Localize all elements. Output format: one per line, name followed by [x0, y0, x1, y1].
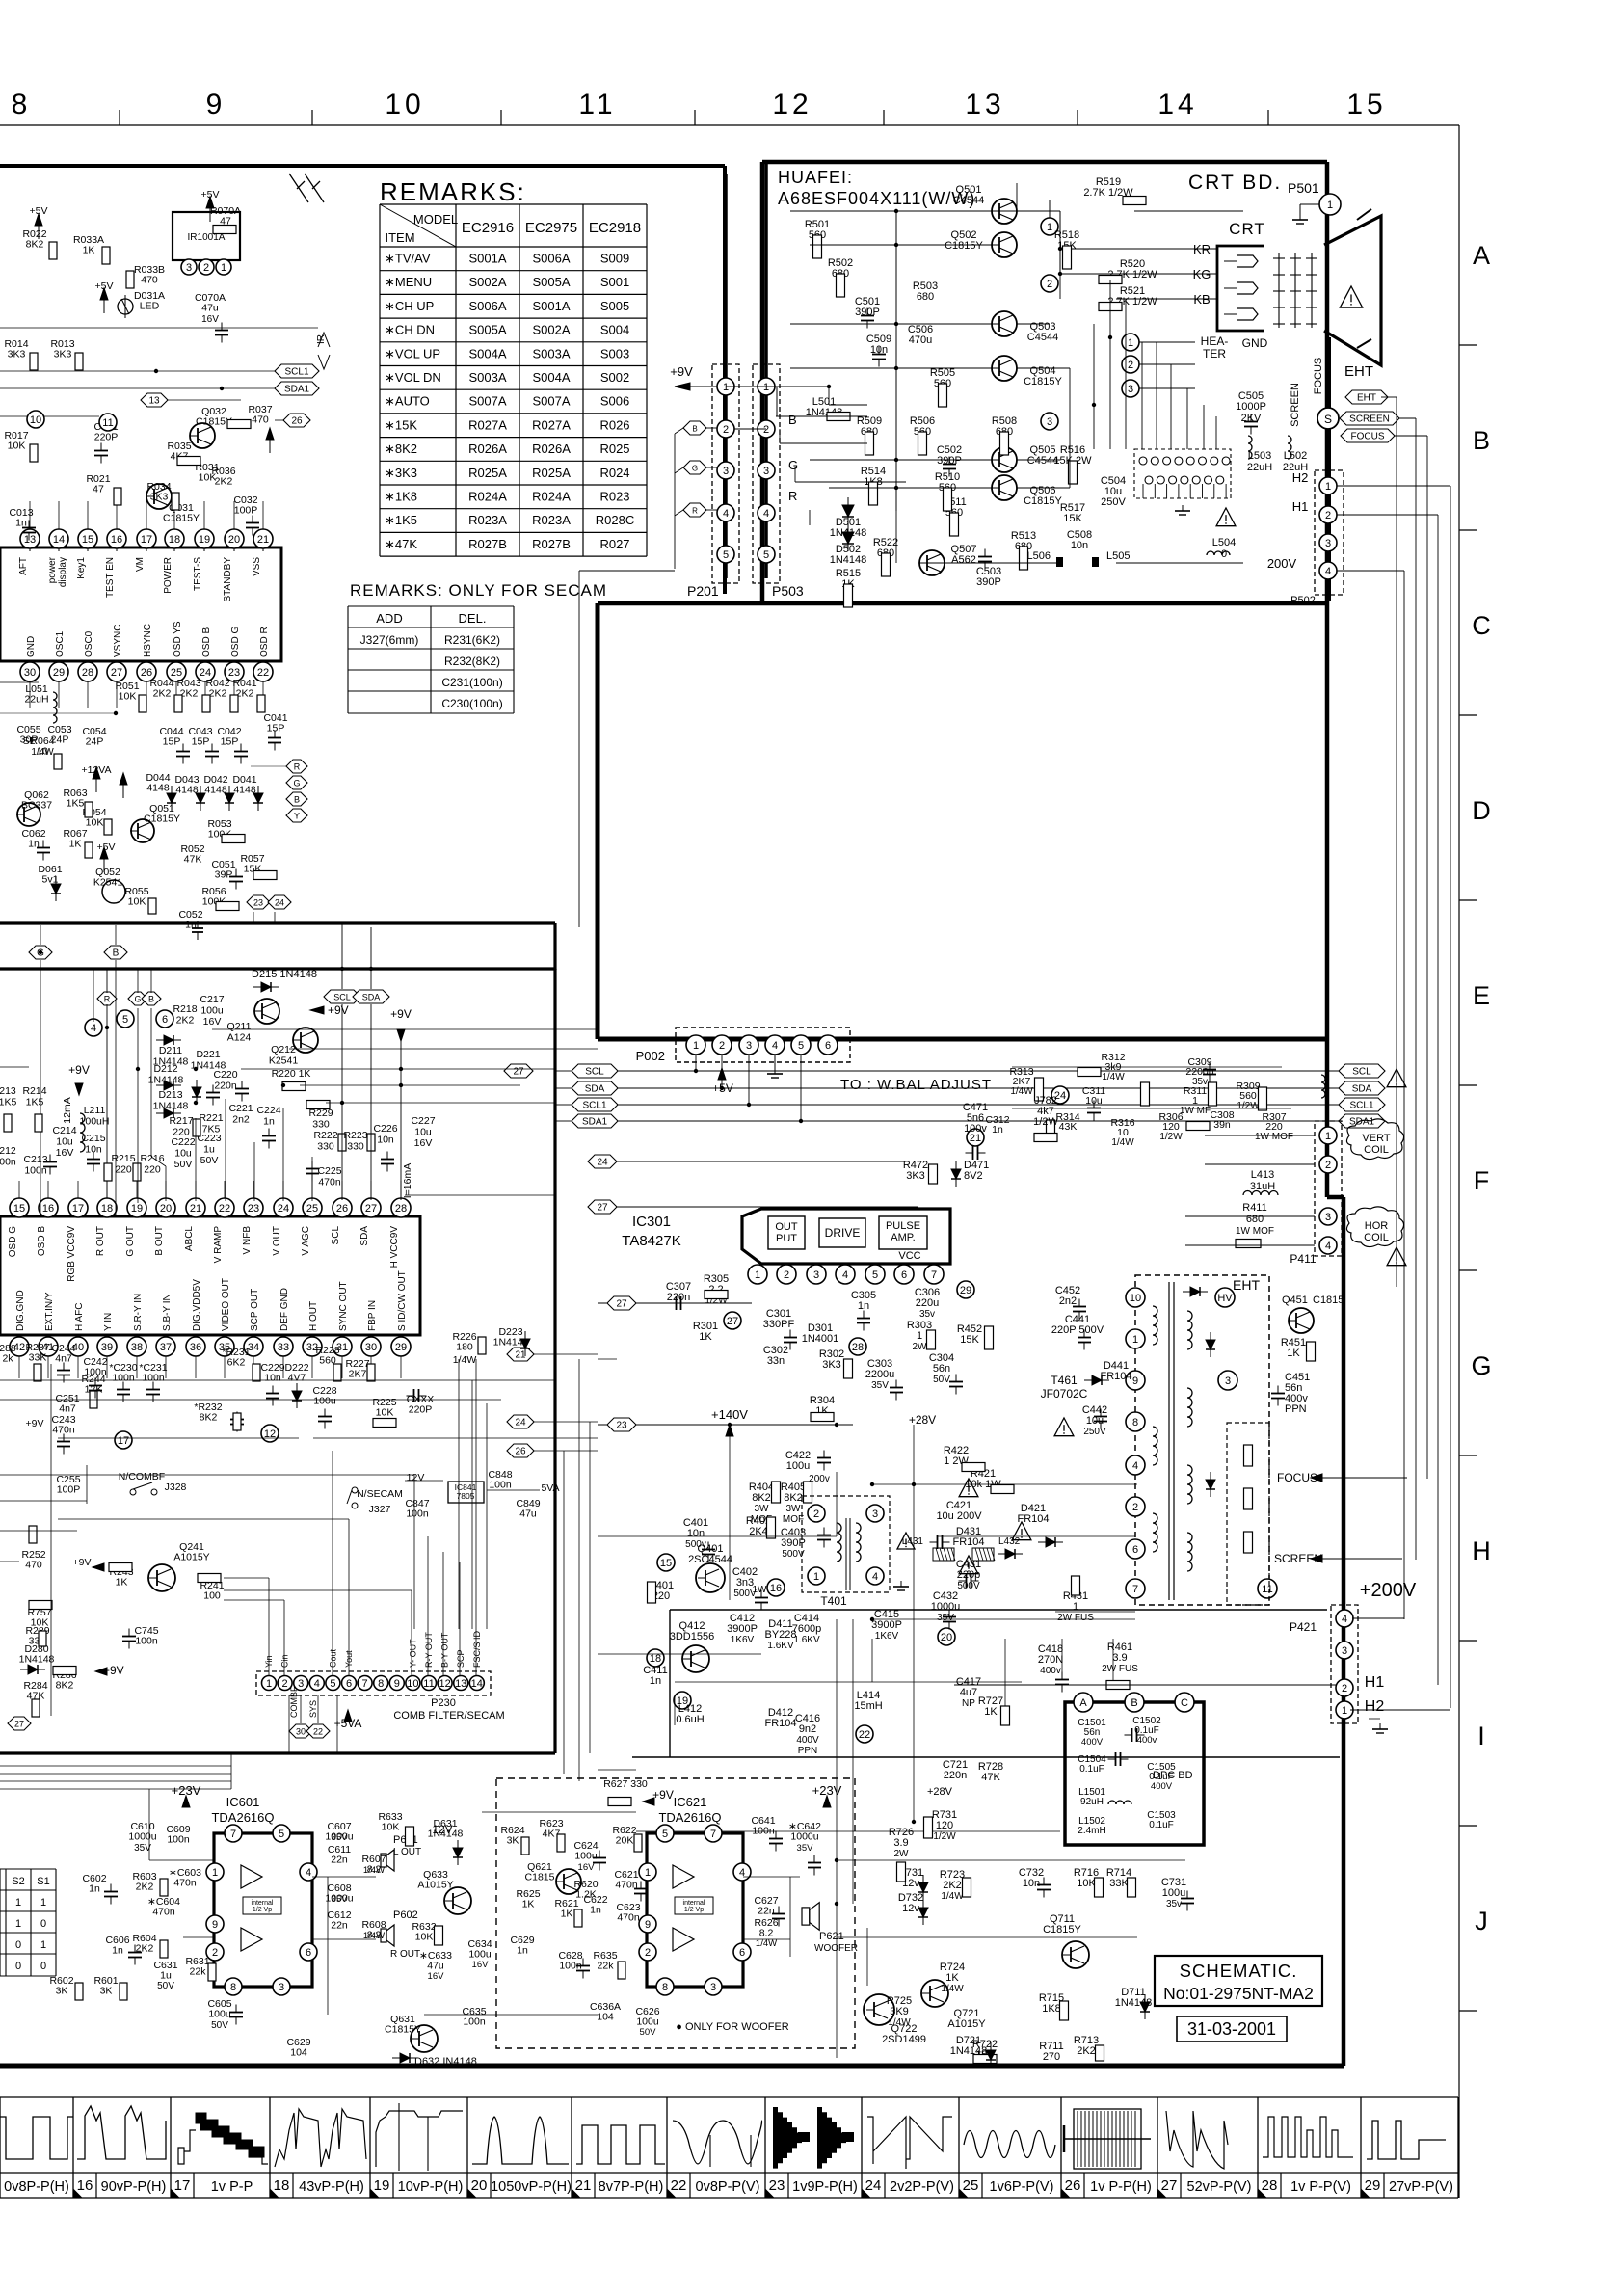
svg-text:P421: P421: [1290, 1620, 1317, 1634]
svg-text:1N4148: 1N4148: [830, 554, 867, 566]
svg-text:EHT: EHT: [1233, 1277, 1260, 1293]
svg-text:1/4W: 1/4W: [941, 1984, 964, 1994]
svg-text:17: 17: [118, 1435, 129, 1447]
svg-text:1W MOF: 1W MOF: [1255, 1132, 1293, 1142]
svg-text:AMP.: AMP.: [891, 1232, 915, 1243]
svg-text:1n: 1n: [89, 1883, 100, 1895]
svg-text:680: 680: [1246, 1214, 1264, 1225]
svg-text:31uH: 31uH: [1250, 1181, 1275, 1192]
svg-text:35V: 35V: [332, 1832, 349, 1843]
svg-text:R027B: R027B: [532, 537, 571, 551]
svg-text:9: 9: [212, 1919, 218, 1931]
svg-text:R223: R223: [343, 1130, 367, 1141]
svg-text:D212: D212: [153, 1063, 177, 1075]
svg-text:1u: 1u: [203, 1144, 215, 1156]
svg-text:10K: 10K: [86, 817, 104, 829]
svg-text:VIDEO OUT: VIDEO OUT: [221, 1278, 231, 1331]
svg-text:+9V: +9V: [26, 1418, 44, 1429]
svg-text:1v P-P(H): 1v P-P(H): [1090, 2179, 1152, 2195]
svg-text:56n: 56n: [933, 1363, 950, 1375]
svg-text:2W: 2W: [894, 1849, 910, 1859]
svg-text:3: 3: [298, 1678, 304, 1690]
svg-text:2K2: 2K2: [215, 476, 233, 488]
svg-text:22: 22: [219, 1203, 230, 1215]
svg-text:1v6P-P(V): 1v6P-P(V): [990, 2179, 1054, 2195]
svg-text:15: 15: [13, 1203, 25, 1215]
svg-text:5: 5: [122, 1014, 128, 1026]
svg-text:2K2: 2K2: [153, 688, 172, 700]
svg-text:1W MF: 1W MF: [1180, 1106, 1211, 1116]
svg-text:220P 500V: 220P 500V: [1051, 1324, 1104, 1336]
svg-text:22: 22: [859, 1729, 870, 1741]
svg-text:2K2: 2K2: [1077, 2045, 1096, 2057]
svg-text:2K4: 2K4: [749, 1526, 768, 1537]
svg-text:Q212: Q212: [271, 1044, 296, 1055]
svg-text:3W: 3W: [786, 1504, 802, 1514]
svg-text:P503: P503: [772, 583, 804, 599]
svg-text:V RAMP: V RAMP: [213, 1226, 224, 1264]
svg-text:B: B: [294, 795, 300, 805]
svg-text:4148: 4148: [233, 785, 256, 796]
svg-text:+140V: +140V: [711, 1407, 748, 1422]
svg-text:C1815: C1815: [525, 1872, 555, 1883]
svg-text:2.4mH: 2.4mH: [1078, 1826, 1105, 1836]
svg-text:1/4W: 1/4W: [453, 1354, 477, 1366]
svg-text:HV: HV: [1217, 1293, 1233, 1304]
svg-text:R024A: R024A: [468, 490, 507, 504]
svg-text:1K: 1K: [83, 245, 95, 256]
svg-text:P621: P621: [819, 1931, 844, 1942]
svg-text:∗1K8: ∗1K8: [385, 490, 417, 504]
svg-text:C215: C215: [81, 1133, 105, 1144]
svg-text:52vP-P(V): 52vP-P(V): [1187, 2179, 1252, 2195]
svg-text:27: 27: [616, 1299, 627, 1310]
svg-text:500V: 500V: [957, 1581, 980, 1591]
svg-text:16V: 16V: [472, 1960, 490, 1970]
svg-text:16V: 16V: [56, 1147, 74, 1159]
svg-text:N/COMBF: N/COMBF: [119, 1471, 165, 1482]
svg-text:10vP-P(H): 10vP-P(H): [398, 2179, 464, 2195]
svg-text:47u: 47u: [519, 1508, 537, 1520]
svg-text:SCL1: SCL1: [1349, 1101, 1373, 1111]
svg-text:VERT: VERT: [1362, 1133, 1390, 1144]
svg-text:29: 29: [395, 1342, 407, 1353]
svg-text:14: 14: [1157, 89, 1197, 120]
svg-text:0: 0: [15, 1961, 21, 1972]
svg-text:SCP OUT: SCP OUT: [250, 1289, 260, 1331]
svg-text:8K2: 8K2: [752, 1492, 771, 1504]
svg-text:OSD B: OSD B: [37, 1226, 47, 1256]
svg-text:S004: S004: [600, 323, 629, 337]
svg-text:OSC0: OSC0: [84, 630, 94, 657]
svg-text:2: 2: [1047, 279, 1052, 290]
svg-text:C222: C222: [171, 1136, 195, 1148]
svg-text:N/SECAM: N/SECAM: [357, 1488, 403, 1500]
svg-text:100u: 100u: [786, 1460, 810, 1472]
svg-text:Cin: Cin: [280, 1654, 290, 1668]
svg-text:C217: C217: [200, 994, 224, 1005]
svg-text:DIG.VDD5V: DIG.VDD5V: [192, 1279, 202, 1331]
svg-text:H VCC9V: H VCC9V: [389, 1226, 400, 1268]
svg-text:H2: H2: [1365, 1698, 1385, 1715]
svg-text:2: 2: [1342, 1683, 1347, 1695]
svg-text:P002: P002: [636, 1049, 665, 1063]
svg-text:FR104: FR104: [1017, 1513, 1049, 1525]
svg-text:10u 200V: 10u 200V: [936, 1510, 982, 1522]
svg-text:S006: S006: [600, 394, 629, 409]
svg-text:S007A: S007A: [532, 394, 570, 409]
svg-text:R OUT: R OUT: [390, 1949, 420, 1960]
svg-text:1: 1: [693, 1040, 699, 1052]
svg-text:2K7: 2K7: [349, 1369, 367, 1380]
svg-text:1: 1: [1327, 200, 1333, 211]
svg-text:V NFB: V NFB: [242, 1226, 253, 1255]
svg-text:100u: 100u: [208, 2009, 231, 2020]
svg-text:TA8427K: TA8427K: [622, 1233, 680, 1249]
svg-text:400V: 400V: [796, 1735, 819, 1746]
svg-text:220n: 220n: [944, 1770, 967, 1781]
svg-text:10K: 10K: [1077, 1878, 1096, 1889]
svg-text:EHT: EHT: [1344, 363, 1373, 380]
svg-text:37: 37: [160, 1342, 172, 1353]
svg-text:24P: 24P: [86, 736, 104, 748]
svg-text:7: 7: [710, 1829, 716, 1840]
svg-text:22n: 22n: [758, 1906, 775, 1917]
svg-text:1: 1: [1073, 1601, 1078, 1613]
svg-text:S2: S2: [12, 1876, 24, 1887]
svg-text:9: 9: [645, 1919, 651, 1931]
svg-text:6: 6: [1132, 1544, 1138, 1556]
svg-text:1: 1: [723, 382, 729, 393]
svg-text:270N: 270N: [1038, 1654, 1063, 1666]
svg-text:5: 5: [763, 549, 769, 561]
svg-text:100n: 100n: [167, 1834, 190, 1846]
svg-text:35V: 35V: [797, 1843, 814, 1854]
svg-text:1v P-P(V): 1v P-P(V): [1290, 2179, 1351, 2195]
svg-text:10n: 10n: [687, 1528, 705, 1539]
svg-text:3: 3: [1325, 1212, 1331, 1223]
svg-text:3: 3: [723, 466, 729, 477]
svg-text:16V: 16V: [203, 1016, 222, 1028]
svg-text:16: 16: [111, 534, 122, 546]
svg-text:3: 3: [746, 1040, 752, 1052]
svg-text:B OUT: B OUT: [154, 1226, 165, 1256]
svg-text:C227: C227: [411, 1115, 435, 1127]
svg-text:R024: R024: [599, 466, 629, 480]
svg-text:26: 26: [336, 1203, 348, 1215]
svg-text:1n: 1n: [112, 1945, 123, 1957]
svg-text:A68ESF004X111(W/W): A68ESF004X111(W/W): [778, 189, 975, 208]
svg-text:1/4W: 1/4W: [756, 1938, 777, 1949]
svg-text:21: 21: [575, 2177, 592, 2194]
svg-text:L OUT: L OUT: [393, 1847, 421, 1857]
svg-text:R221: R221: [199, 1112, 223, 1124]
svg-text:92uH: 92uH: [1080, 1797, 1104, 1807]
svg-text:20: 20: [228, 534, 240, 546]
svg-text:330PF: 330PF: [763, 1319, 795, 1330]
svg-text:4: 4: [1132, 1460, 1138, 1472]
svg-text:400v: 400v: [1040, 1666, 1061, 1676]
svg-text:VSYNC: VSYNC: [113, 625, 123, 657]
svg-text:2200u: 2200u: [865, 1369, 895, 1380]
svg-text:28: 28: [395, 1203, 407, 1215]
svg-text:8K2: 8K2: [784, 1492, 803, 1504]
svg-text:1.6KV: 1.6KV: [793, 1635, 820, 1645]
svg-text:3: 3: [813, 1269, 819, 1281]
svg-text:R027A: R027A: [468, 417, 507, 432]
svg-text:R231(6K2): R231(6K2): [444, 633, 500, 647]
svg-text:S002A: S002A: [532, 323, 570, 337]
svg-text:4: 4: [1342, 1614, 1347, 1625]
svg-text:3: 3: [1342, 1645, 1347, 1657]
svg-text:T401: T401: [820, 1594, 847, 1608]
svg-text:TEST-S: TEST-S: [193, 557, 203, 591]
svg-text:power: power: [47, 556, 58, 583]
svg-text:L502: L502: [1284, 450, 1307, 462]
svg-text:47K: 47K: [184, 854, 202, 866]
svg-text:120: 120: [936, 1820, 953, 1831]
svg-text:1: 1: [1132, 1334, 1138, 1346]
svg-text:50V: 50V: [174, 1159, 193, 1170]
svg-text:6: 6: [739, 1947, 745, 1959]
svg-text:STANDBY: STANDBY: [223, 557, 233, 602]
svg-text:SCREEN: SCREEN: [1349, 414, 1390, 425]
svg-text:24: 24: [865, 2177, 882, 2194]
svg-text:SCP: SCP: [456, 1649, 466, 1668]
svg-text:C214: C214: [52, 1125, 76, 1136]
svg-text:1: 1: [15, 1918, 21, 1930]
svg-text:100u: 100u: [636, 2016, 659, 2028]
svg-text:GND: GND: [1242, 336, 1268, 350]
svg-text:H1: H1: [1365, 1674, 1385, 1691]
svg-text:CRT BD.: CRT BD.: [1188, 172, 1282, 194]
svg-text:33K: 33K: [1109, 1878, 1129, 1889]
svg-text:C213: C213: [23, 1154, 47, 1165]
svg-text:R: R: [294, 762, 301, 772]
svg-text:WOOFER: WOOFER: [814, 1943, 858, 1954]
svg-text:21: 21: [257, 534, 269, 546]
svg-text:4: 4: [723, 508, 729, 520]
svg-text:S006A: S006A: [532, 252, 570, 266]
svg-text:10K: 10K: [8, 441, 26, 452]
svg-text:1: 1: [40, 1897, 46, 1909]
svg-text:50V: 50V: [640, 2027, 657, 2038]
svg-text:OSD G: OSD G: [8, 1226, 18, 1257]
svg-text:A1015Y: A1015Y: [947, 2018, 986, 2030]
svg-text:10: 10: [407, 1678, 418, 1690]
svg-text:1/4W: 1/4W: [941, 1891, 964, 1902]
svg-text:9n2: 9n2: [799, 1723, 816, 1735]
svg-text:HEA-: HEA-: [1201, 334, 1229, 348]
svg-text:C1815Y: C1815Y: [1043, 1924, 1081, 1936]
svg-text:3: 3: [763, 466, 769, 477]
svg-text:C1815Y: C1815Y: [196, 416, 232, 428]
svg-text:9: 9: [394, 1678, 400, 1690]
svg-text:DEL.: DEL.: [459, 611, 487, 626]
svg-text:27: 27: [727, 1316, 738, 1327]
svg-text:SCL: SCL: [331, 1226, 341, 1245]
svg-text:8: 8: [1132, 1417, 1138, 1428]
svg-text:DEF GND: DEF GND: [279, 1288, 290, 1331]
svg-text:21: 21: [190, 1203, 201, 1215]
svg-text:10K: 10K: [376, 1407, 394, 1419]
svg-text:6: 6: [901, 1269, 907, 1281]
svg-text:2n2: 2n2: [1059, 1295, 1077, 1307]
svg-text:10n: 10n: [1071, 540, 1088, 551]
svg-text:C1815Y: C1815Y: [1024, 495, 1062, 507]
svg-text:16V: 16V: [578, 1862, 596, 1873]
svg-text:470: 470: [252, 414, 269, 426]
svg-text:SCL: SCL: [1352, 1067, 1371, 1078]
svg-text:Y- OUT: Y- OUT: [408, 1639, 417, 1668]
svg-text:18: 18: [101, 1203, 113, 1215]
svg-text:G: G: [692, 465, 698, 473]
svg-text:8v7P-P(H): 8v7P-P(H): [599, 2179, 664, 2195]
svg-text:47: 47: [93, 484, 104, 495]
svg-text:1N4148: 1N4148: [19, 1654, 55, 1666]
svg-text:∗15K: ∗15K: [385, 417, 417, 432]
svg-text:1: 1: [1047, 222, 1052, 233]
svg-text:4148: 4148: [204, 785, 227, 796]
svg-text:+9V: +9V: [652, 1788, 674, 1802]
svg-text:C220: C220: [213, 1069, 237, 1081]
svg-text:8V2: 8V2: [964, 1170, 983, 1182]
svg-text:R214: R214: [22, 1085, 46, 1097]
svg-text:+200V: +200V: [1360, 1580, 1417, 1601]
svg-text:1000P: 1000P: [1236, 401, 1266, 413]
svg-text:27: 27: [513, 1067, 524, 1078]
svg-text:1000u: 1000u: [790, 1831, 818, 1843]
svg-text:5: 5: [279, 1829, 284, 1840]
svg-text:K2541: K2541: [93, 877, 123, 889]
svg-text:R027: R027: [599, 537, 629, 551]
svg-text:10n: 10n: [264, 1373, 281, 1384]
svg-text:1/2W: 1/2W: [933, 1831, 956, 1842]
svg-text:8K2: 8K2: [200, 1412, 218, 1424]
svg-text:6: 6: [162, 1014, 168, 1026]
svg-text:S001A: S001A: [532, 299, 570, 313]
svg-text:220p: 220p: [957, 1569, 980, 1581]
svg-text:D213: D213: [158, 1089, 182, 1101]
svg-text:7: 7: [362, 1678, 368, 1690]
svg-text:470n: 470n: [173, 1878, 197, 1889]
svg-text:6K2: 6K2: [227, 1357, 246, 1369]
svg-text:390P: 390P: [976, 576, 1001, 588]
svg-text:R026: R026: [599, 417, 629, 432]
svg-text:220: 220: [115, 1164, 132, 1176]
svg-text:∗MENU: ∗MENU: [385, 275, 432, 289]
svg-text:2K2: 2K2: [176, 1015, 195, 1027]
svg-text:39: 39: [101, 1342, 113, 1353]
svg-text:12V: 12V: [432, 1823, 452, 1836]
svg-text:G: G: [1471, 1351, 1491, 1380]
svg-text:100n: 100n: [463, 2016, 486, 2028]
svg-text:MOF: MOF: [783, 1514, 804, 1525]
svg-text:SCREEN: SCREEN: [1290, 383, 1301, 427]
svg-text:C224: C224: [256, 1105, 280, 1116]
svg-text:47u: 47u: [427, 1961, 444, 1972]
svg-text:FOCUS: FOCUS: [1351, 432, 1385, 442]
svg-text:internal: internal: [252, 1900, 274, 1907]
svg-text:500V: 500V: [733, 1589, 757, 1599]
svg-text:8K2: 8K2: [26, 239, 44, 251]
svg-text:33n: 33n: [767, 1355, 785, 1367]
svg-text:1: 1: [212, 1867, 218, 1879]
svg-text:C221: C221: [228, 1103, 253, 1114]
svg-text:FBP IN: FBP IN: [367, 1300, 378, 1331]
svg-text:L506: L506: [1027, 550, 1051, 562]
svg-text:100n: 100n: [406, 1508, 429, 1520]
svg-text:6: 6: [306, 1947, 311, 1959]
svg-text:17: 17: [174, 2177, 191, 2194]
svg-text:1v9P-P(H): 1v9P-P(H): [792, 2179, 858, 2195]
svg-text:33K: 33K: [29, 1352, 47, 1364]
svg-text:SCL: SCL: [333, 993, 351, 1002]
svg-text:212: 212: [0, 1145, 16, 1157]
svg-text:1K: 1K: [522, 1899, 535, 1910]
svg-text:C1815Y: C1815Y: [1024, 376, 1062, 387]
svg-text:R222: R222: [313, 1130, 337, 1141]
svg-text:1/2W: 1/2W: [1033, 1116, 1058, 1128]
svg-text:2: 2: [1132, 1502, 1138, 1513]
svg-text:400v: 400v: [1137, 1735, 1157, 1746]
svg-text:R024A: R024A: [532, 490, 571, 504]
svg-text:DPC BD: DPC BD: [1153, 1770, 1193, 1781]
svg-text:1.6KV: 1.6KV: [767, 1641, 794, 1651]
svg-text:R: R: [104, 995, 111, 1004]
svg-text:3K: 3K: [507, 1835, 519, 1847]
svg-text:+9V: +9V: [390, 1007, 412, 1021]
svg-text:D: D: [1472, 796, 1491, 825]
svg-text:S004A: S004A: [532, 370, 570, 385]
svg-text:19: 19: [199, 534, 210, 546]
svg-text:∗VOL UP: ∗VOL UP: [385, 346, 440, 360]
svg-text:470n: 470n: [318, 1177, 341, 1188]
svg-text:+9V: +9V: [670, 364, 693, 379]
svg-text:50V: 50V: [933, 1375, 950, 1385]
svg-text:0: 0: [40, 1918, 46, 1930]
svg-text:D221: D221: [196, 1049, 220, 1060]
svg-text:S002: S002: [600, 370, 629, 385]
svg-text:2W: 2W: [913, 1342, 928, 1352]
svg-text:2v2P-P(V): 2v2P-P(V): [890, 2179, 954, 2195]
svg-text:EC2975: EC2975: [525, 220, 577, 236]
svg-text:100u: 100u: [468, 1949, 492, 1961]
svg-text:ADD: ADD: [376, 611, 402, 626]
svg-text:2K2: 2K2: [943, 1880, 962, 1891]
svg-text:16: 16: [770, 1583, 782, 1594]
svg-text:90vP-P(H): 90vP-P(H): [101, 2179, 167, 2195]
svg-text:29: 29: [960, 1285, 971, 1296]
svg-text:P230: P230: [431, 1697, 456, 1709]
svg-text:22k: 22k: [598, 1961, 615, 1972]
svg-text:SYS: SYS: [308, 1700, 318, 1718]
svg-text:A1015Y: A1015Y: [417, 1880, 453, 1891]
svg-text:10: 10: [30, 414, 41, 426]
svg-text:R: R: [788, 489, 797, 503]
svg-text:1: 1: [221, 262, 226, 274]
svg-text:15: 15: [82, 534, 93, 546]
svg-text:12: 12: [439, 1678, 450, 1690]
svg-text:∗1K5: ∗1K5: [385, 513, 417, 527]
svg-text:500v: 500v: [685, 1539, 706, 1550]
svg-text:SDA: SDA: [585, 1084, 605, 1095]
svg-text:27vP-P(V): 27vP-P(V): [1389, 2179, 1453, 2195]
svg-text:B: B: [1131, 1697, 1137, 1709]
svg-text:11: 11: [1262, 1584, 1272, 1595]
svg-text:8.2: 8.2: [759, 1928, 774, 1939]
svg-text:28: 28: [1262, 2177, 1278, 2194]
